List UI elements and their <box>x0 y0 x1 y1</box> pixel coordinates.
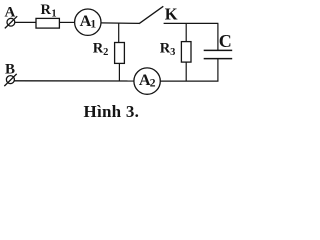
terminal A <box>5 16 17 28</box>
terminal B <box>4 74 16 86</box>
wire A1 to switch <box>101 22 139 25</box>
wire R3 to bottom rail <box>185 62 187 81</box>
wire capacitor to bottom rail <box>217 59 219 82</box>
svg-text:3: 3 <box>170 47 175 58</box>
junction node, wire down to R2 <box>118 23 120 43</box>
resistor R2 <box>115 43 125 64</box>
resistor R3 <box>181 42 191 63</box>
bottom wire A2 to capacitor branch <box>160 80 218 82</box>
svg-text:C: C <box>219 31 232 51</box>
resistor R1 <box>36 18 59 28</box>
svg-text:K: K <box>165 4 178 23</box>
junction node, wire down to R3 <box>185 23 187 41</box>
ammeter A2 <box>134 68 160 94</box>
bottom wire B to A2 <box>14 80 134 82</box>
svg-text:1: 1 <box>51 9 56 20</box>
wire A to R1 <box>15 21 36 23</box>
svg-text:1: 1 <box>90 17 96 30</box>
svg-text:R: R <box>41 2 52 18</box>
svg-text:Hình 3.: Hình 3. <box>84 102 140 121</box>
wire corner down to capacitor <box>217 23 219 50</box>
svg-text:2: 2 <box>103 47 108 58</box>
wire R2 to bottom rail <box>118 63 120 80</box>
switch K blade <box>139 6 163 23</box>
ammeter A1 <box>75 9 101 35</box>
wire switch to corner <box>164 22 219 24</box>
capacitor C plates <box>204 49 233 51</box>
svg-text:2: 2 <box>150 76 156 89</box>
wire R1 to A1 <box>59 21 74 23</box>
